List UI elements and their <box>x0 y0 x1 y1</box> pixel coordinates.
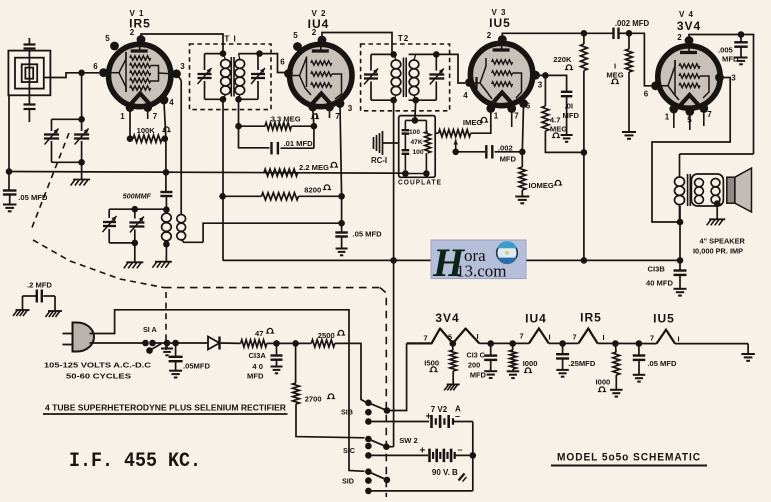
svg-text:IU4: IU4 <box>525 312 547 326</box>
svg-text:1: 1 <box>494 112 499 121</box>
svg-text:200: 200 <box>468 361 480 370</box>
svg-text:I0,000 PR. IMP: I0,000 PR. IMP <box>693 247 743 256</box>
svg-text:4 0: 4 0 <box>252 362 263 371</box>
svg-text:3V4: 3V4 <box>435 311 459 325</box>
svg-text:1: 1 <box>120 112 125 121</box>
svg-text:100: 100 <box>409 129 420 136</box>
svg-text:105-125 VOLTS A.C.-D.C: 105-125 VOLTS A.C.-D.C <box>44 361 152 370</box>
svg-text:3: 3 <box>731 74 736 83</box>
svg-text:IMEG: IMEG <box>463 118 483 127</box>
svg-text:.002 MFD: .002 MFD <box>615 19 650 28</box>
svg-text:CI3 C: CI3 C <box>467 351 485 360</box>
svg-text:SIC: SIC <box>343 446 355 455</box>
svg-text:A: A <box>455 405 461 414</box>
svg-text:40 MFD: 40 MFD <box>646 279 674 288</box>
svg-text:I.F. 455 KC.: I.F. 455 KC. <box>69 450 201 473</box>
svg-text:6: 6 <box>280 58 285 67</box>
svg-text:7: 7 <box>153 112 158 121</box>
svg-text:CI3B: CI3B <box>648 265 666 274</box>
svg-text:220K: 220K <box>553 55 572 64</box>
svg-text:IR5: IR5 <box>580 311 602 325</box>
svg-text:MFD: MFD <box>722 55 739 64</box>
svg-text:4 TUBE SUPERHETERODYNE PLUS SE: 4 TUBE SUPERHETERODYNE PLUS SELENIUM REC… <box>45 404 286 413</box>
svg-text:MFD: MFD <box>470 371 487 380</box>
svg-text:6: 6 <box>644 90 649 99</box>
svg-text:.002: .002 <box>498 144 513 153</box>
svg-text:2500: 2500 <box>318 331 335 340</box>
svg-text:I000: I000 <box>523 359 538 368</box>
svg-text:I: I <box>677 335 679 344</box>
svg-text:6: 6 <box>526 102 531 111</box>
svg-text:50-60 CYCLES: 50-60 CYCLES <box>66 372 131 381</box>
svg-text:I: I <box>548 333 550 342</box>
svg-text:MODEL 5o5o SCHEMATIC: MODEL 5o5o SCHEMATIC <box>557 452 701 464</box>
svg-text:T2: T2 <box>398 34 409 43</box>
svg-text:.25MFD: .25MFD <box>568 359 596 368</box>
svg-text:.05MFD: .05MFD <box>183 362 211 371</box>
svg-text:IU5: IU5 <box>653 312 675 326</box>
svg-text:IOMEG: IOMEG <box>529 181 554 190</box>
svg-text:T I: T I <box>224 35 236 44</box>
svg-text:3: 3 <box>180 62 185 71</box>
svg-text:IU5: IU5 <box>489 16 511 30</box>
svg-text:4" SPEAKER: 4" SPEAKER <box>700 237 746 246</box>
svg-text:1: 1 <box>665 113 670 122</box>
svg-text:7: 7 <box>707 110 712 119</box>
svg-text:2: 2 <box>487 31 492 40</box>
svg-text:7 V2: 7 V2 <box>431 405 448 414</box>
svg-text:.05 MFD: .05 MFD <box>647 359 677 368</box>
svg-text:MFD: MFD <box>247 372 264 381</box>
svg-text:I: I <box>476 332 478 341</box>
svg-text:4: 4 <box>463 91 468 100</box>
svg-text:V 4: V 4 <box>679 10 694 19</box>
svg-text:90 V. B: 90 V. B <box>432 468 458 477</box>
svg-text:6: 6 <box>93 62 98 71</box>
svg-text:4: 4 <box>169 98 174 107</box>
svg-text:5: 5 <box>293 31 298 40</box>
svg-text:13.com: 13.com <box>456 262 507 281</box>
svg-text:100K: 100K <box>137 126 156 135</box>
svg-text:7: 7 <box>519 332 523 341</box>
svg-text:.01 MFD: .01 MFD <box>284 139 314 148</box>
svg-text:SW 2: SW 2 <box>399 436 418 445</box>
svg-text:5: 5 <box>448 333 452 342</box>
svg-text:RC-I: RC-I <box>371 156 387 165</box>
svg-text:2700: 2700 <box>305 395 322 404</box>
svg-text:I000: I000 <box>596 378 611 387</box>
svg-text:3: 3 <box>538 81 543 90</box>
svg-text:.05 MFD: .05 MFD <box>353 230 383 239</box>
svg-text:7: 7 <box>572 333 576 342</box>
svg-text:.2 MFD: .2 MFD <box>27 281 52 290</box>
svg-text:I500: I500 <box>424 359 439 368</box>
svg-text:100: 100 <box>413 149 424 156</box>
svg-text:7: 7 <box>423 334 427 343</box>
svg-text:IR5: IR5 <box>129 17 151 31</box>
svg-text:SI A: SI A <box>143 325 157 334</box>
svg-text:3.3 MEG: 3.3 MEG <box>271 115 301 124</box>
svg-text:3V4: 3V4 <box>677 19 701 33</box>
svg-text:MEG: MEG <box>550 125 567 134</box>
svg-text:+: + <box>420 446 426 457</box>
svg-text:IU4: IU4 <box>308 17 330 31</box>
svg-text:I: I <box>602 333 604 342</box>
svg-text:7: 7 <box>514 112 519 121</box>
svg-text:SIB: SIB <box>341 408 353 417</box>
svg-text:MEG: MEG <box>606 71 623 80</box>
svg-text:3: 3 <box>348 104 353 113</box>
svg-text:8200: 8200 <box>304 186 321 195</box>
svg-text:47K: 47K <box>411 139 423 146</box>
svg-text:–: – <box>458 445 463 455</box>
svg-text:MFD: MFD <box>500 155 517 164</box>
svg-text:CI3A: CI3A <box>249 351 267 360</box>
svg-text:.005: .005 <box>718 46 734 55</box>
svg-text:.0I: .0I <box>565 102 573 111</box>
svg-text:500MMF: 500MMF <box>123 192 152 201</box>
svg-text:SID: SID <box>342 477 354 486</box>
svg-text:I: I <box>614 62 616 71</box>
svg-text:47: 47 <box>255 329 263 338</box>
svg-text:5: 5 <box>105 34 110 43</box>
svg-text:2: 2 <box>677 33 682 42</box>
svg-text:2.2 MEG: 2.2 MEG <box>299 163 329 172</box>
svg-text:7: 7 <box>650 334 654 343</box>
svg-text:COUPLATE: COUPLATE <box>398 178 442 187</box>
svg-text:4.7: 4.7 <box>550 116 561 125</box>
svg-text:MFD: MFD <box>563 111 580 120</box>
